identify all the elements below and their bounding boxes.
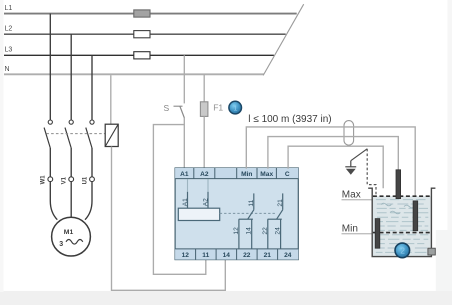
motor terminal W1 <box>41 175 53 185</box>
svg-text:A1: A1 <box>182 198 189 206</box>
svg-text:1: 1 <box>233 103 237 112</box>
svg-text:14: 14 <box>246 227 253 235</box>
svg-text:12: 12 <box>182 252 190 259</box>
net L3 <box>4 47 274 56</box>
svg-text:C: C <box>285 171 290 178</box>
svg-text:14: 14 <box>223 252 231 259</box>
motor terminal V1 <box>62 176 74 184</box>
electrode Min probe <box>413 201 418 231</box>
contactor pole 1 from L1 <box>44 14 52 177</box>
svg-text:3: 3 <box>59 241 63 248</box>
wire relay Max to electrode Max <box>268 137 398 171</box>
svg-text:24: 24 <box>275 227 282 235</box>
svg-text:11: 11 <box>202 252 209 259</box>
svg-text:12: 12 <box>233 227 240 235</box>
svg-text:F1: F1 <box>213 102 223 112</box>
svg-text:22: 22 <box>243 252 251 259</box>
electrode Max probe <box>396 170 401 199</box>
svg-text:21: 21 <box>277 199 284 207</box>
motor M1 <box>52 217 91 256</box>
wire S branch to relay terminal 11 <box>153 125 205 275</box>
callout 2 <box>395 243 410 258</box>
svg-text:M1: M1 <box>64 229 74 236</box>
wire coil K1 to relay terminal 14 <box>112 147 226 291</box>
dashed wire C to reference electrode <box>367 149 376 219</box>
switch S <box>174 106 185 118</box>
relay internal dashed link <box>220 212 276 214</box>
wire V1 to motor <box>70 182 72 217</box>
fuse on L3 <box>134 52 150 59</box>
svg-text:L3: L3 <box>5 47 13 54</box>
svg-text:Min: Min <box>342 224 358 235</box>
net L1 <box>4 5 297 14</box>
fuse on L1 <box>134 10 150 17</box>
contactor mechanical link dashed <box>46 133 105 135</box>
wire relay Min to electrode Min <box>246 127 415 201</box>
svg-text:A2: A2 <box>202 198 209 206</box>
level line Min dashed <box>373 232 431 234</box>
wire N to fuse F1 <box>203 74 205 102</box>
wire F1 to relay A2 <box>203 116 205 168</box>
relay internal coil <box>178 179 219 221</box>
relay body <box>175 168 298 260</box>
svg-text:Max: Max <box>260 171 273 178</box>
contactor pole 2 from L2 <box>65 34 73 177</box>
net N <box>4 66 264 75</box>
net L2 <box>4 26 286 35</box>
svg-text:W1: W1 <box>41 175 47 185</box>
fuse on L2 <box>134 31 150 38</box>
switch S wire from L3 <box>183 55 185 103</box>
svg-text:U1: U1 <box>82 176 88 184</box>
wire W1 to motor <box>50 182 57 220</box>
level line Max dashed <box>373 195 431 197</box>
contactor coil K1 <box>105 124 118 146</box>
wire S to relay A1 <box>183 118 185 169</box>
bus truncation slash <box>263 4 304 75</box>
motor terminal U1 <box>82 176 94 184</box>
blade C to ground <box>351 149 367 161</box>
svg-text:L2: L2 <box>5 26 13 33</box>
svg-text:Max: Max <box>342 190 361 201</box>
electrode reference <box>375 219 380 249</box>
contactor pole 3 from L3 <box>86 55 94 177</box>
svg-text:22: 22 <box>262 227 269 235</box>
svg-text:A2: A2 <box>200 171 209 178</box>
svg-text:11: 11 <box>248 199 255 206</box>
svg-text:Min: Min <box>241 171 252 178</box>
svg-text:A1: A1 <box>180 171 189 178</box>
relay contact 21-22-24 <box>262 193 284 249</box>
svg-text:V1: V1 <box>62 176 68 184</box>
earth ground <box>345 161 356 175</box>
callout 1 <box>229 101 242 114</box>
wire relay C to tank <box>288 146 383 188</box>
svg-text:S: S <box>164 103 170 113</box>
tank liquid <box>373 196 431 256</box>
wire U1 to motor <box>85 182 92 220</box>
fuse F1 <box>200 102 208 117</box>
svg-text:2: 2 <box>400 246 405 256</box>
svg-text:24: 24 <box>284 252 292 259</box>
svg-text:L1: L1 <box>5 5 13 12</box>
wire N to contactor coil <box>110 75 112 124</box>
label Min with leader <box>342 224 373 235</box>
svg-text:N: N <box>5 66 10 73</box>
svg-text:21: 21 <box>264 252 272 259</box>
probe cable sleeve <box>344 121 354 146</box>
relay contact 11-12-14 <box>233 193 255 249</box>
tank drain marker <box>428 248 435 255</box>
label Max with leader <box>342 190 373 201</box>
svg-text:l ≤ 100 m (3937 in): l ≤ 100 m (3937 in) <box>248 114 331 125</box>
tank <box>368 188 435 256</box>
